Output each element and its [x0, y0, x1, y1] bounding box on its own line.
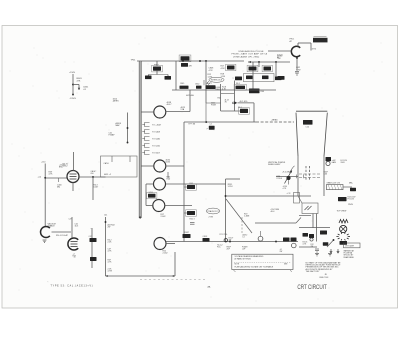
box CRT cath selector — [344, 243, 361, 248]
svg-text:TO 5410: TO 5410 — [152, 146, 161, 148]
resistor R844 — [165, 76, 172, 80]
capacitor C44 — [350, 188, 356, 191]
svg-text:AB,: AB, — [208, 285, 212, 288]
wire horizontal to deflection plates — [226, 195, 311, 197]
resistor R870 heater — [313, 38, 328, 43]
svg-text:-1350V: -1350V — [70, 98, 77, 100]
svg-text:0.047: 0.047 — [94, 187, 99, 189]
deflection plate lines — [299, 173, 321, 175]
box cathode network — [101, 156, 138, 177]
svg-text:u: u — [233, 77, 234, 79]
svg-text:+150V: +150V — [69, 72, 76, 74]
capacitor C861 — [226, 64, 236, 70]
capacitor C897 — [320, 231, 327, 235]
svg-text:JATES: JATES — [113, 100, 120, 103]
svg-text:GAIN: GAIN — [332, 161, 337, 164]
svg-text:GRATICULE LTS: GRATICULE LTS — [327, 182, 341, 185]
svg-text:R44: R44 — [261, 91, 264, 93]
resistor R846 — [181, 63, 188, 67]
wire — [205, 103, 207, 122]
node junction — [258, 61, 260, 63]
wire — [183, 122, 185, 242]
box voltage readings notes — [232, 254, 293, 269]
wire — [129, 156, 131, 162]
svg-text:4.2K: 4.2K — [221, 68, 226, 70]
svg-text:THE FACTORY: THE FACTORY — [306, 270, 321, 273]
svg-text:C41: C41 — [104, 215, 107, 217]
tube V6 envelope — [67, 171, 79, 183]
capacitor C864 — [246, 76, 253, 80]
svg-text:TOP VIEW: TOP VIEW — [337, 211, 347, 213]
CRT neck right wall — [323, 156, 325, 196]
svg-text:1/2W: 1/2W — [296, 69, 301, 71]
svg-text:P.DL: P.DL — [217, 247, 221, 249]
capacitor C871 symbol — [295, 71, 299, 73]
node junction — [275, 241, 277, 243]
wire — [343, 186, 352, 188]
CRT neck left wall — [297, 156, 299, 196]
ground — [43, 240, 47, 242]
svg-text:C66: C66 — [324, 174, 327, 176]
socket lead arrows — [330, 249, 339, 253]
connector pin TO 5440 — [145, 136, 150, 140]
oval trace rotation — [206, 208, 220, 214]
svg-text:TO 5440: TO 5440 — [152, 139, 161, 141]
wire — [166, 183, 227, 185]
wire — [79, 176, 106, 178]
svg-text:VOLTAGE READINGS MEASURED: VOLTAGE READINGS MEASURED — [235, 255, 264, 258]
svg-text:1.21K: 1.21K — [228, 186, 234, 188]
junction tick — [295, 175, 297, 179]
wire — [72, 74, 74, 95]
svg-text:+4.4: +4.4 — [38, 176, 42, 178]
deflection plate dashes — [305, 166, 307, 180]
wire — [141, 111, 154, 113]
wire — [276, 176, 298, 178]
connector pin TO +4047 — [145, 122, 150, 126]
svg-text:1.1M: 1.1M — [221, 76, 226, 78]
svg-text:C4: C4 — [210, 124, 212, 126]
resistor R872 — [275, 77, 282, 81]
node junction — [44, 177, 46, 179]
svg-text:R14.4 J100 AT: R14.4 J100 AT — [56, 234, 69, 237]
CRT socket pins top — [339, 220, 348, 224]
CRT envelope funnel — [296, 111, 327, 156]
svg-text:L4: L4 — [243, 237, 245, 239]
wire — [167, 172, 169, 178]
svg-text:CATH: CATH — [104, 162, 110, 165]
svg-text:INTERLOCK: INTERLOCK — [211, 80, 223, 82]
wire loop bottom — [106, 275, 176, 277]
svg-text:16.3: 16.3 — [75, 226, 79, 228]
svg-text:TYPE 53: CAL.(ACE13+V): TYPE 53: CAL.(ACE13+V) — [51, 285, 94, 288]
wire top rail — [137, 60, 244, 62]
svg-text:*: * — [91, 229, 92, 231]
wire — [175, 61, 177, 90]
node junction — [72, 84, 74, 86]
resistor R87 — [323, 242, 329, 245]
svg-text:BNC: BNC — [59, 167, 64, 169]
box corner ticks — [234, 271, 236, 272]
wire bottom bus — [166, 241, 298, 243]
svg-text:R7.2 P.DL: R7.2 P.DL — [220, 234, 228, 236]
svg-text:STABLE: STABLE — [48, 225, 56, 228]
wire — [299, 227, 330, 229]
svg-text:p: p — [207, 128, 208, 130]
wire — [146, 183, 154, 185]
wire — [275, 62, 277, 79]
capacitor C884 symbol — [190, 222, 195, 224]
node junction — [199, 60, 201, 62]
svg-text:+R.4 2W: +R.4 2W — [282, 172, 289, 174]
node junction — [92, 176, 94, 178]
diode arrow — [78, 85, 80, 91]
svg-text:TO +4047: TO +4047 — [152, 125, 162, 127]
svg-text:R51 3: R51 3 — [190, 218, 195, 220]
svg-text:47K: 47K — [77, 81, 81, 83]
wire — [141, 165, 154, 167]
box neck connector — [294, 193, 300, 204]
node junction — [229, 241, 231, 243]
svg-text:C4?: C4? — [89, 236, 92, 238]
svg-text:2W: 2W — [280, 251, 283, 253]
svg-text:4.7W: 4.7W — [108, 271, 113, 273]
wire — [145, 184, 147, 206]
svg-text:TRACE ROT: TRACE ROT — [207, 210, 219, 213]
wire — [299, 246, 317, 248]
capacitor C846 — [180, 86, 189, 89]
wire — [220, 84, 222, 111]
svg-text:C850: C850 — [195, 83, 199, 85]
CRT socket radiating pins — [348, 236, 350, 238]
ground — [328, 254, 332, 256]
svg-text:POS.N: POS.N — [277, 178, 283, 180]
svg-text:PLATE (ADJUSTED) VOLTAGE LIST: PLATE (ADJUSTED) VOLTAGE LIST TOLERANCE — [235, 266, 275, 269]
wire unblanking to CRT grid — [248, 61, 290, 63]
wire — [73, 152, 75, 171]
svg-text:A41 P: A41 P — [207, 82, 213, 85]
svg-text:A1: A1 — [277, 56, 279, 59]
svg-text:R?? 1M: R?? 1M — [189, 124, 196, 126]
wire — [45, 177, 67, 179]
svg-text:2.042: 2.042 — [161, 216, 167, 218]
svg-text:TO 5408: TO 5408 — [152, 132, 161, 134]
svg-text:7W: 7W — [311, 246, 314, 248]
connector pin TO 5507 — [145, 150, 150, 154]
svg-text:+MEAS: +MEAS — [271, 119, 278, 122]
capacitor C10 inside CRT — [303, 120, 313, 125]
svg-text:TP41: TP41 — [131, 59, 137, 61]
resistor R868 big — [249, 89, 260, 94]
wire — [206, 102, 221, 104]
svg-text:UNBLANKING PULSE: UNBLANKING PULSE — [239, 50, 265, 53]
tube V2 envelope — [154, 160, 166, 172]
box graticule lights — [327, 185, 344, 190]
wire horizontal bus — [172, 89, 276, 91]
wire — [91, 228, 93, 268]
wire — [72, 183, 74, 192]
wire — [226, 178, 241, 180]
junction tick — [303, 175, 305, 179]
diode D875 — [234, 101, 237, 104]
svg-text:R437: R437 — [185, 232, 190, 234]
svg-text:(TIME-BASE UPL 2W4): (TIME-BASE UPL 2W4) — [233, 55, 260, 58]
wire — [297, 43, 299, 47]
svg-text:+0: +0 — [74, 257, 76, 259]
wire — [238, 102, 255, 104]
wire dash-dot beam line — [184, 121, 256, 123]
node junction — [105, 221, 107, 223]
tube V3 envelope — [154, 178, 166, 190]
node junction — [275, 61, 277, 63]
pot wiper circle — [258, 236, 263, 241]
resistor R895 — [303, 233, 309, 237]
wire — [146, 205, 153, 207]
label plug-in interlock oval — [209, 77, 224, 82]
wire — [73, 84, 79, 86]
svg-text:SHIELD ASSY: SHIELD ASSY — [268, 163, 281, 166]
resistor R865 — [262, 76, 269, 80]
tube V7 half envelope — [41, 227, 50, 238]
wire CRT grid shield line — [138, 61, 140, 218]
wire — [312, 214, 314, 229]
node junction — [182, 60, 184, 62]
node junction — [205, 121, 207, 123]
tube V859 half envelope — [291, 46, 300, 56]
tube V4 envelope — [153, 200, 165, 212]
wire — [221, 110, 240, 112]
wire dashed — [241, 217, 243, 233]
CRT socket base — [340, 241, 348, 245]
wire — [92, 177, 94, 200]
wire — [296, 57, 298, 71]
network box — [244, 74, 275, 82]
svg-text:PU/M: PU/M — [211, 105, 216, 107]
resistor R40 gain — [326, 157, 332, 161]
wire — [299, 215, 311, 217]
wire — [253, 103, 255, 122]
svg-text:2W: 2W — [229, 240, 232, 242]
wire — [166, 165, 184, 167]
wire — [44, 164, 46, 227]
svg-text:464.7: 464.7 — [167, 104, 173, 106]
wire diagonal — [327, 240, 334, 247]
wire diagonal — [226, 199, 252, 233]
svg-text:MM+: MM+ — [349, 183, 353, 185]
svg-text:2W4V: 2W4V — [348, 204, 354, 206]
connector pin TO 5410 — [145, 143, 150, 147]
resistor R883 — [186, 210, 197, 216]
wire — [252, 62, 254, 93]
node junction — [205, 60, 207, 62]
resistor R862 — [247, 65, 258, 71]
svg-text:C10: C10 — [306, 127, 309, 129]
wire faint dashed — [140, 279, 205, 281]
wire — [166, 243, 175, 245]
resistor R886 — [283, 238, 290, 242]
svg-text:R4.6: R4.6 — [236, 83, 240, 85]
svg-text:1.40M: 1.40M — [244, 216, 250, 218]
wire — [298, 196, 302, 203]
svg-text:FEB-27-63: FEB-27-63 — [320, 277, 329, 279]
wire — [268, 50, 292, 52]
wire — [258, 62, 260, 67]
wire — [52, 231, 72, 233]
wire — [288, 180, 290, 184]
connector pin TO 5408 — [145, 129, 150, 133]
svg-text:C845: C845 — [180, 83, 184, 85]
wire — [166, 111, 190, 113]
capacitor C894 — [90, 257, 97, 261]
svg-text:2T3V: 2T3V — [209, 217, 214, 219]
resistor R896 — [309, 234, 314, 238]
wire — [255, 222, 296, 224]
wire — [205, 61, 207, 103]
resistor focus divider — [338, 197, 347, 201]
capacitor C843 — [145, 76, 152, 80]
box deflection network — [302, 203, 318, 214]
resistor R887 — [291, 238, 297, 242]
resistor R845 on rail — [179, 55, 191, 62]
tube V8 half envelope — [68, 238, 78, 250]
pot symbol — [292, 243, 297, 248]
scan speckle — [10, 37, 383, 302]
wire — [221, 93, 235, 95]
pot symbol — [224, 239, 227, 242]
svg-text:050: 050 — [91, 173, 94, 175]
wire — [156, 71, 158, 75]
wire — [165, 205, 192, 207]
resistor R885 — [203, 238, 210, 242]
wire — [316, 214, 318, 242]
capacitor C898 symbol — [315, 248, 319, 250]
wire — [105, 217, 107, 276]
CRT socket body — [340, 225, 347, 232]
wire — [71, 217, 73, 238]
wire — [58, 178, 60, 182]
ground — [315, 254, 319, 256]
svg-text:2W: 2W — [108, 227, 111, 229]
svg-text:FOCUS: FOCUS — [348, 199, 355, 201]
svg-text:CRT CATH: CRT CATH — [345, 245, 355, 248]
resistor R863 — [262, 65, 272, 71]
potentiometer intensity — [286, 176, 290, 180]
wire — [111, 156, 113, 162]
svg-text:FROM +GATE OUT AMP CRT A: FROM +GATE OUT AMP CRT A — [232, 53, 268, 56]
svg-text:TO 5507: TO 5507 — [152, 153, 161, 155]
wire — [203, 80, 205, 85]
svg-text:C4?: C4? — [69, 219, 72, 221]
wire — [127, 113, 129, 143]
svg-text:4035 +2: 4035 +2 — [104, 174, 111, 176]
wire — [156, 61, 158, 66]
svg-text:CRT CIRCUIT: CRT CIRCUIT — [297, 285, 327, 291]
svg-text:+150: +150 — [41, 162, 45, 164]
svg-text:2.042: 2.042 — [163, 253, 169, 255]
resistor R866 — [278, 76, 285, 80]
tube V1 envelope — [154, 106, 166, 118]
wire — [189, 90, 191, 112]
wire — [225, 179, 227, 242]
svg-text:P-MAP: P-MAP — [109, 134, 116, 137]
svg-text:REAR PANEL: REAR PANEL — [344, 256, 355, 259]
tube V5 envelope — [154, 238, 166, 250]
wire — [233, 81, 235, 112]
ground — [72, 94, 74, 96]
